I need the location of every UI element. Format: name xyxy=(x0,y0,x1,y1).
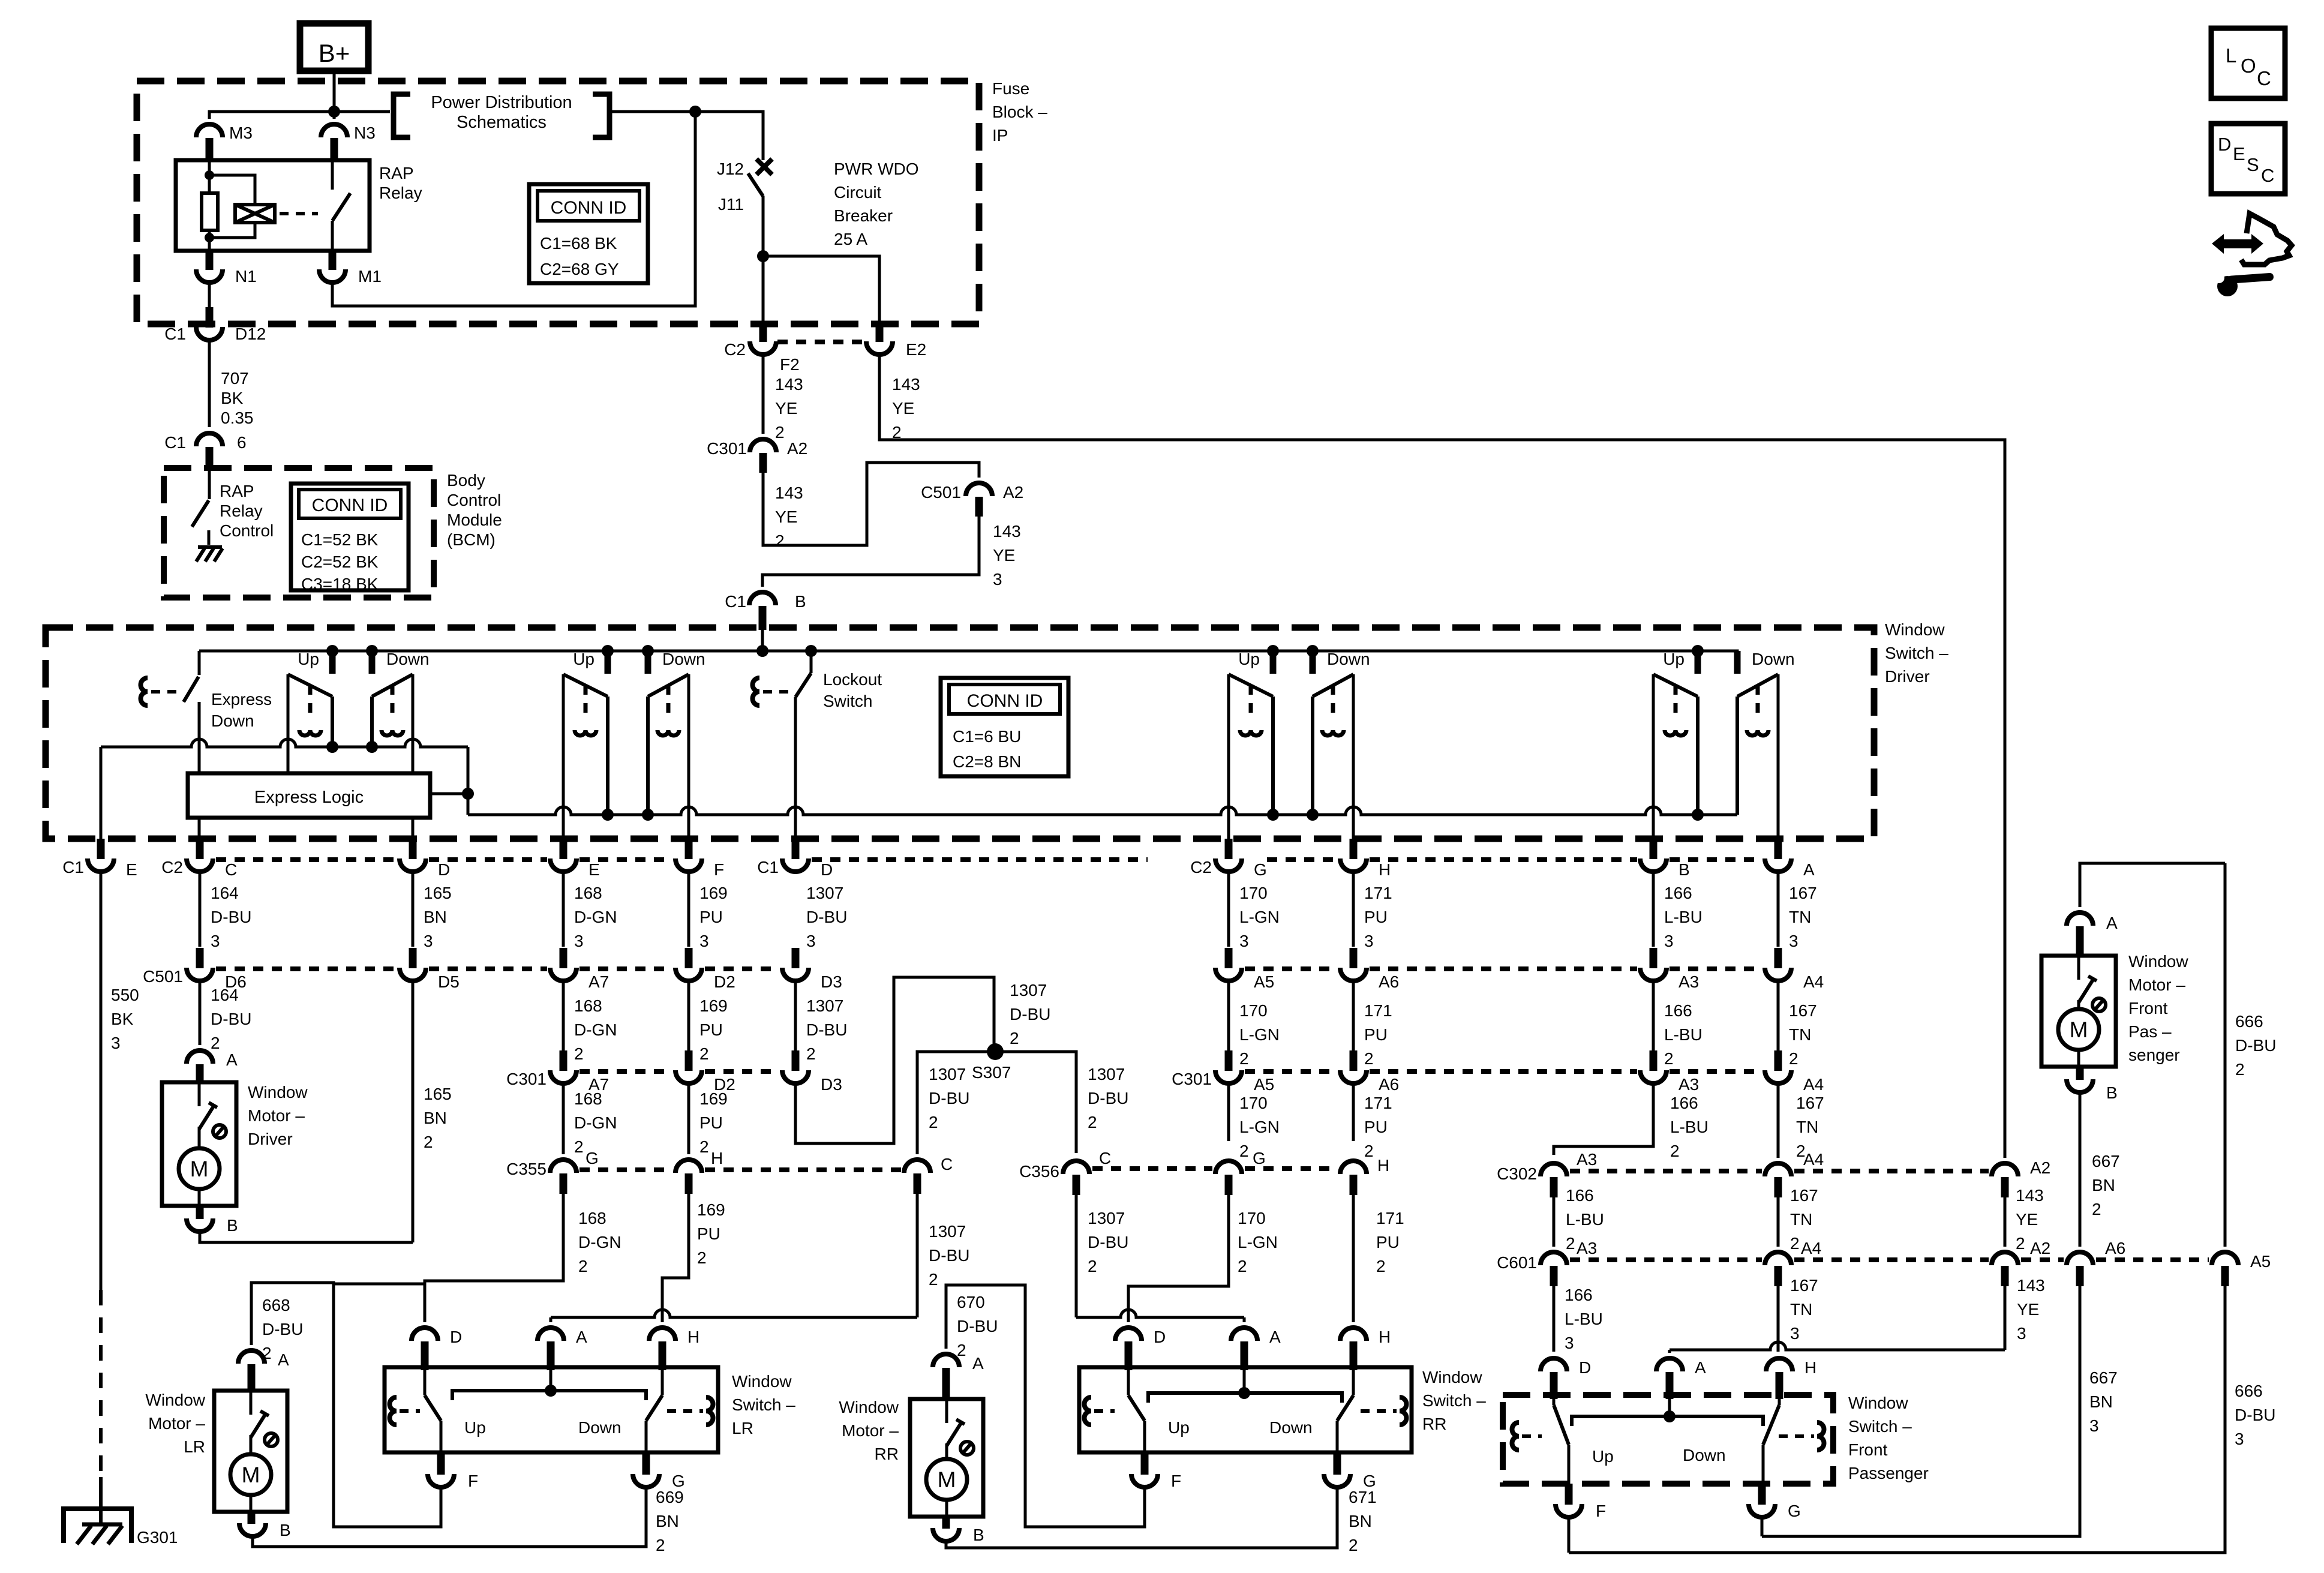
svg-text:Switch –: Switch – xyxy=(732,1395,795,1414)
svg-text:Pas –: Pas – xyxy=(2128,1022,2172,1041)
svg-text:3: 3 xyxy=(574,932,584,950)
svg-text:RR: RR xyxy=(1422,1415,1446,1433)
svg-text:YE: YE xyxy=(892,399,914,418)
svg-text:Down: Down xyxy=(386,650,430,668)
svg-text:PU: PU xyxy=(699,908,723,926)
svg-text:A5: A5 xyxy=(1254,972,1274,991)
svg-text:Down: Down xyxy=(211,712,254,730)
svg-text:C1=6 BU: C1=6 BU xyxy=(953,727,1021,746)
svg-text:168: 168 xyxy=(578,1209,606,1227)
svg-text:2: 2 xyxy=(1088,1113,1097,1131)
svg-text:D-BU: D-BU xyxy=(2235,1406,2275,1424)
connector A window switch front passenger xyxy=(1656,1358,1683,1371)
linkage LR up xyxy=(390,1397,397,1425)
svg-text:YE: YE xyxy=(2017,1300,2039,1319)
conn-id table BCM xyxy=(291,484,409,590)
svg-text:D-GN: D-GN xyxy=(574,908,617,926)
svg-text:BN: BN xyxy=(2089,1392,2113,1411)
svg-text:M3: M3 xyxy=(229,124,253,142)
svg-text:3: 3 xyxy=(1239,932,1249,950)
svg-text:B+: B+ xyxy=(319,39,350,67)
connector pin A4 C501-row x2964 xyxy=(1774,948,1782,968)
svg-text:G: G xyxy=(1254,860,1267,879)
connector row C2 fuse block xyxy=(777,340,865,344)
wire 143 YE 3 C601-FP A xyxy=(2004,1286,2007,1350)
connector row line C302 xyxy=(1570,1169,1762,1173)
wire 707 BK 0.35 xyxy=(208,338,211,427)
svg-text:D: D xyxy=(1154,1328,1166,1346)
svg-text:BN: BN xyxy=(1349,1512,1372,1530)
connector pin A driver switch x2964 xyxy=(1774,839,1782,859)
svg-text:A2: A2 xyxy=(787,439,807,458)
wire segment x2964 rowB-rowC xyxy=(1777,980,1780,1050)
svg-text:2: 2 xyxy=(699,1137,709,1156)
svg-text:B: B xyxy=(2106,1083,2118,1102)
svg-text:A4: A4 xyxy=(1803,1075,1824,1094)
wire segment x2256 rowB-rowC xyxy=(1352,980,1355,1050)
ground G301 xyxy=(64,1509,131,1543)
connector C601 pin A5 xyxy=(2212,1252,2238,1265)
wire segment x2756 rowB-rowC xyxy=(1652,980,1655,1050)
junction coil top xyxy=(205,170,214,180)
wire 671 BN 2 RR motor B to G xyxy=(946,1485,1337,1548)
svg-text:PU: PU xyxy=(697,1224,720,1243)
svg-text:A7: A7 xyxy=(588,972,609,991)
svg-text:170: 170 xyxy=(1238,1209,1266,1227)
svg-text:H: H xyxy=(1377,1156,1389,1175)
svg-text:2: 2 xyxy=(1790,1234,1800,1253)
svg-text:D: D xyxy=(438,860,450,879)
svg-text:L-GN: L-GN xyxy=(1239,908,1280,926)
svg-text:A: A xyxy=(226,1050,238,1069)
wire segment x1148 rowB-rowC xyxy=(687,980,690,1050)
junction pair1 down wiper xyxy=(366,741,378,753)
linkage LR down xyxy=(706,1397,713,1425)
svg-text:TN: TN xyxy=(1789,1025,1811,1044)
svg-text:C1: C1 xyxy=(725,592,746,611)
junction pair3 up wiper xyxy=(1267,809,1279,821)
svg-text:0.35: 0.35 xyxy=(221,409,254,427)
node Up contact stub pair3 xyxy=(1267,645,1279,657)
svg-text:Window: Window xyxy=(2128,952,2188,971)
wire driver wiper common (E net) xyxy=(101,739,468,747)
svg-text:3: 3 xyxy=(1364,932,1374,950)
svg-text:Control: Control xyxy=(220,521,274,540)
wire B+ feed down xyxy=(333,71,336,112)
svg-text:BN: BN xyxy=(424,1109,447,1127)
connector C356 pin C xyxy=(1063,1161,1089,1174)
connector C601 pin A6 xyxy=(2067,1252,2093,1265)
connector C2 pin G driver switch x2048 xyxy=(1225,839,1233,859)
connector F window switch RR xyxy=(1141,1452,1149,1475)
svg-text:A: A xyxy=(278,1350,289,1369)
logic block Express Logic xyxy=(188,773,430,818)
svg-text:CONN ID: CONN ID xyxy=(551,198,627,218)
connector C355 pin G xyxy=(550,1160,577,1173)
svg-text:1307: 1307 xyxy=(806,884,843,902)
svg-text:Up: Up xyxy=(1238,650,1260,668)
wire 666 D-BU 3 C601-FP F xyxy=(1569,1286,2225,1553)
linkage RR up xyxy=(1085,1397,1092,1425)
wire 169 PU 2 to LR H xyxy=(662,1194,689,1322)
connector C1 pin E driver switch x168 xyxy=(97,839,105,859)
svg-text:PU: PU xyxy=(1376,1233,1400,1251)
connector row line C356 xyxy=(1092,1166,1212,1171)
svg-text:Window: Window xyxy=(839,1398,899,1416)
svg-text:1307: 1307 xyxy=(929,1065,966,1083)
svg-text:M: M xyxy=(190,1157,209,1181)
svg-text:C2=8 BN: C2=8 BN xyxy=(953,752,1021,771)
wire 143 YE 2 (C301 to C501) xyxy=(763,463,979,545)
connector C356 pin H xyxy=(1340,1161,1367,1174)
power symbol B+ box xyxy=(300,23,368,71)
svg-text:2: 2 xyxy=(775,532,785,550)
svg-text:D-GN: D-GN xyxy=(574,1113,617,1132)
svg-text:Power Distribution: Power Distribution xyxy=(431,93,572,112)
connector row line C355 xyxy=(580,1167,672,1172)
svg-text:A: A xyxy=(576,1328,587,1346)
icon LOC box xyxy=(2211,28,2285,98)
svg-text:C355: C355 xyxy=(506,1160,547,1178)
svg-text:B: B xyxy=(280,1521,291,1539)
wire 1307 D-BU 2 to LR A xyxy=(916,1194,919,1317)
svg-text:TN: TN xyxy=(1789,908,1811,926)
svg-text:D: D xyxy=(2218,134,2231,155)
node Up contact stub pair2 xyxy=(602,645,614,657)
svg-text:A: A xyxy=(1803,860,1815,879)
svg-text:166: 166 xyxy=(1664,1001,1692,1020)
svg-text:Control: Control xyxy=(447,491,501,509)
svg-text:PU: PU xyxy=(699,1113,723,1132)
svg-text:D12: D12 xyxy=(235,325,266,343)
wire 666 D-BU 2 loop right xyxy=(2224,863,2227,1247)
svg-text:Body: Body xyxy=(447,471,485,490)
svg-text:RR: RR xyxy=(875,1445,899,1463)
svg-text:YE: YE xyxy=(993,546,1015,565)
svg-text:Lockout: Lockout xyxy=(823,670,882,689)
wire 165 BN 2 down xyxy=(412,980,415,1242)
svg-text:2: 2 xyxy=(1376,1257,1386,1275)
svg-text:Up: Up xyxy=(1663,650,1685,668)
wire breaker to E2 xyxy=(763,256,879,324)
svg-text:165: 165 xyxy=(424,1085,452,1103)
svg-text:165: 165 xyxy=(424,884,452,902)
svg-text:M1: M1 xyxy=(358,267,382,286)
svg-text:D5: D5 xyxy=(438,972,460,991)
wire segment x688 rowA-rowB xyxy=(412,871,415,947)
svg-text:Down: Down xyxy=(1752,650,1795,668)
svg-text:Switch –: Switch – xyxy=(1422,1391,1486,1410)
junction B+ node xyxy=(328,106,340,118)
wire 143 YE 3 (C501 to C1 B) xyxy=(762,517,979,587)
svg-text:N1: N1 xyxy=(235,267,257,286)
svg-text:B: B xyxy=(973,1526,984,1544)
svg-text:Motor –: Motor – xyxy=(148,1414,205,1433)
connector row line C2 (driver switch left) xyxy=(216,857,397,862)
svg-text:168: 168 xyxy=(574,884,602,902)
wire segment A6 rowC-C356 xyxy=(1352,1083,1355,1141)
connector pin E driver switch x939 xyxy=(560,839,568,859)
svg-text:C1=68 BK: C1=68 BK xyxy=(540,234,617,253)
svg-text:H: H xyxy=(687,1328,699,1346)
svg-text:2: 2 xyxy=(1238,1257,1247,1275)
svg-text:C: C xyxy=(2257,67,2271,89)
wire 168 D-GN 2 to LR D xyxy=(425,1194,563,1322)
switch LR up contact xyxy=(424,1370,427,1395)
junction bus lockout xyxy=(805,645,817,657)
svg-text:A6: A6 xyxy=(1379,1075,1399,1094)
window switch driver dashed box xyxy=(46,628,1874,839)
svg-text:143: 143 xyxy=(993,522,1021,541)
svg-text:C301: C301 xyxy=(1172,1070,1212,1088)
svg-text:171: 171 xyxy=(1364,1094,1392,1112)
wire LR D net link xyxy=(334,1283,425,1286)
switch RAP relay contacts xyxy=(331,161,334,190)
wire 167 TN 2 C302-C601 xyxy=(1777,1197,1780,1247)
wire segment x1326 rowB-rowC xyxy=(794,980,797,1050)
svg-text:A3: A3 xyxy=(1679,1075,1699,1094)
svg-text:Motor –: Motor – xyxy=(2128,975,2185,994)
svg-text:3: 3 xyxy=(2089,1416,2099,1435)
wire FP G down xyxy=(1761,1515,1764,1536)
icon animal head outline xyxy=(2241,214,2292,265)
wire 668 D-BU 2 LR F to motor A xyxy=(251,1283,441,1527)
connector row line C501 xyxy=(216,966,397,971)
svg-text:669: 669 xyxy=(656,1488,684,1506)
connector N3 xyxy=(333,112,336,119)
wire segment x939 rowC-rowD xyxy=(562,1083,565,1154)
connector pin D driver switch x688 xyxy=(409,839,417,859)
linkage Express Down xyxy=(141,678,148,706)
svg-text:2: 2 xyxy=(578,1257,588,1275)
switch LR down contact xyxy=(661,1370,664,1395)
svg-text:A6: A6 xyxy=(1379,972,1399,991)
svg-text:G: G xyxy=(1788,1502,1801,1520)
connector pin D5 C501-row x688 xyxy=(409,948,417,968)
svg-text:2: 2 xyxy=(1239,1142,1249,1160)
svg-text:C501: C501 xyxy=(921,483,961,502)
svg-text:6: 6 xyxy=(237,433,247,452)
svg-text:2: 2 xyxy=(1566,1234,1575,1253)
svg-text:2: 2 xyxy=(697,1248,707,1267)
wire 1307 D-BU 2 to RR A xyxy=(1075,1195,1078,1317)
svg-text:2: 2 xyxy=(1239,1049,1249,1068)
connector C302 pin A2 xyxy=(1992,1163,2018,1176)
svg-text:C2: C2 xyxy=(724,340,746,359)
wire 143 YE 2 (F2) xyxy=(762,352,765,434)
svg-text:A2: A2 xyxy=(2030,1158,2050,1177)
svg-text:3: 3 xyxy=(1790,1324,1800,1343)
bar LR switch common xyxy=(452,1391,646,1400)
wire 170 L-GN 2 to RR D xyxy=(1128,1195,1229,1322)
connector M3 xyxy=(196,124,223,137)
svg-text:167: 167 xyxy=(1789,1001,1817,1020)
svg-text:164: 164 xyxy=(211,884,239,902)
svg-text:2: 2 xyxy=(1664,1049,1674,1068)
svg-text:J11: J11 xyxy=(718,195,744,214)
svg-text:LR: LR xyxy=(184,1437,205,1456)
svg-text:169: 169 xyxy=(699,996,728,1015)
svg-text:169: 169 xyxy=(697,1200,725,1219)
connector B window motor RR xyxy=(942,1517,950,1529)
wire 166 L-BU 3 C601-FP D xyxy=(1553,1286,1556,1352)
svg-text:Up: Up xyxy=(573,650,594,668)
wire N1 down xyxy=(208,280,211,307)
relay RAP box xyxy=(176,160,370,251)
svg-text:Window: Window xyxy=(145,1391,205,1409)
wire C1 B to bus xyxy=(761,630,764,651)
svg-text:L-BU: L-BU xyxy=(1664,1025,1703,1044)
svg-text:N3: N3 xyxy=(354,124,376,142)
svg-text:(BCM): (BCM) xyxy=(447,530,496,549)
svg-text:H: H xyxy=(711,1149,723,1167)
connector C356 pin G xyxy=(1215,1161,1242,1174)
connector M1 xyxy=(329,251,337,270)
svg-text:143: 143 xyxy=(892,375,920,394)
svg-text:Down: Down xyxy=(1683,1446,1726,1464)
switch FP up contact xyxy=(1553,1399,1556,1405)
svg-text:2: 2 xyxy=(929,1113,938,1131)
wire segment x2048 rowB-rowC xyxy=(1227,980,1230,1050)
svg-text:166: 166 xyxy=(1565,1286,1593,1304)
svg-text:166: 166 xyxy=(1670,1094,1698,1112)
svg-text:TN: TN xyxy=(1790,1210,1812,1229)
svg-text:M: M xyxy=(242,1463,260,1487)
connector A window switch RR xyxy=(1231,1328,1257,1341)
svg-text:PU: PU xyxy=(699,1020,723,1039)
connector row line C301 xyxy=(580,1069,672,1074)
connector C301 pin A5 C301-row x2048 xyxy=(1225,1050,1233,1071)
connector B window motor front passenger xyxy=(2076,1067,2084,1080)
connector E2 xyxy=(876,324,884,342)
connector C301 pin A7 C301-row x939 xyxy=(560,1050,568,1071)
wire 143 YE 2 C302-C601 xyxy=(2004,1197,2007,1247)
svg-text:D-BU: D-BU xyxy=(957,1317,998,1335)
svg-text:Breaker: Breaker xyxy=(834,206,893,225)
connector D window switch front passenger xyxy=(1541,1358,1567,1371)
svg-text:143: 143 xyxy=(2016,1186,2044,1205)
svg-text:168: 168 xyxy=(574,996,602,1015)
svg-text:C301: C301 xyxy=(506,1070,547,1088)
svg-text:C1: C1 xyxy=(757,858,779,876)
connector C1 D12 xyxy=(206,307,214,328)
switch paddle FP-down (pair4) xyxy=(1737,674,1778,697)
linkage dash coil to contacts xyxy=(280,212,318,215)
svg-text:2: 2 xyxy=(424,1133,433,1151)
svg-text:O: O xyxy=(2241,55,2256,77)
connector H window switch front passenger xyxy=(1766,1358,1792,1371)
motor window motor driver xyxy=(162,1082,236,1206)
node Up contact stub pair4 xyxy=(1692,645,1704,657)
svg-text:Circuit: Circuit xyxy=(834,183,882,202)
svg-text:C3=18 BK: C3=18 BK xyxy=(301,575,379,593)
svg-text:1307: 1307 xyxy=(1088,1209,1125,1227)
connector H window switch RR xyxy=(1340,1328,1367,1341)
svg-text:Express: Express xyxy=(211,690,272,709)
svg-text:L-GN: L-GN xyxy=(1239,1118,1280,1136)
svg-text:3: 3 xyxy=(993,570,1002,589)
connector C2 pin C driver switch x333 xyxy=(196,839,204,859)
connector C2 F2 xyxy=(759,324,767,342)
svg-text:A: A xyxy=(972,1354,984,1373)
wire 171 PU 2 to RR H xyxy=(1352,1195,1355,1322)
svg-text:L-BU: L-BU xyxy=(1565,1310,1603,1328)
svg-text:S: S xyxy=(2247,154,2259,175)
svg-text:2: 2 xyxy=(1088,1257,1097,1275)
junction pair1 up wiper xyxy=(326,741,338,753)
svg-text:YE: YE xyxy=(2016,1210,2038,1229)
body control module dashed box xyxy=(164,468,434,598)
icon wrench xyxy=(2217,276,2238,296)
svg-text:G: G xyxy=(585,1149,599,1167)
wire segment x1148 rowA-rowB xyxy=(687,871,690,947)
connector G window switch RR xyxy=(1334,1452,1341,1475)
node Down contact stub pair1 xyxy=(366,645,378,657)
svg-text:166: 166 xyxy=(1664,884,1692,902)
svg-text:1307: 1307 xyxy=(929,1222,966,1241)
connector D window switch RR xyxy=(1115,1328,1142,1341)
wire 550 BK 3 (C1 E down) xyxy=(100,871,103,1290)
bus wire (battery feed in driver switch) xyxy=(199,651,1737,674)
switch Express Down xyxy=(198,651,201,675)
svg-text:TN: TN xyxy=(1790,1300,1812,1319)
switch paddle driver-down xyxy=(372,674,413,697)
svg-text:3: 3 xyxy=(211,932,220,950)
svg-text:3: 3 xyxy=(1565,1334,1574,1352)
svg-text:Window: Window xyxy=(1885,620,1945,639)
linkage Lockout xyxy=(753,678,760,706)
off-page bracket left (Power Distribution) xyxy=(394,94,410,137)
splice S307 xyxy=(987,1043,1004,1060)
svg-text:Switch: Switch xyxy=(823,692,872,710)
svg-text:670: 670 xyxy=(957,1293,985,1311)
svg-text:1307: 1307 xyxy=(1088,1065,1125,1083)
connector A window motor front passenger xyxy=(2067,912,2093,926)
svg-text:A3: A3 xyxy=(1577,1150,1597,1169)
window switch RR box xyxy=(1079,1367,1412,1452)
svg-text:2: 2 xyxy=(1364,1142,1374,1160)
svg-text:D-BU: D-BU xyxy=(1010,1005,1050,1023)
svg-text:C2: C2 xyxy=(161,858,183,876)
svg-text:Front: Front xyxy=(2128,999,2168,1017)
svg-text:A2: A2 xyxy=(2030,1239,2050,1257)
svg-text:F2: F2 xyxy=(780,355,800,374)
connector D window switch LR xyxy=(412,1328,438,1341)
svg-text:C: C xyxy=(941,1155,953,1173)
svg-text:D-BU: D-BU xyxy=(2235,1036,2276,1055)
svg-text:667: 667 xyxy=(2089,1368,2118,1387)
connector C601 pin A4 xyxy=(1765,1252,1791,1265)
svg-text:D: D xyxy=(821,860,833,879)
wire bracket to breaker feed xyxy=(609,112,763,160)
svg-text:RAP: RAP xyxy=(379,164,414,182)
connector pin D2 C501-row x1148 xyxy=(685,948,693,968)
svg-text:3: 3 xyxy=(1789,932,1798,950)
linkage FP up xyxy=(1512,1422,1520,1450)
resistor RAP relay xyxy=(208,175,211,193)
connector A window switch LR xyxy=(538,1328,564,1341)
wire segment x939 rowB-rowC xyxy=(562,980,565,1050)
svg-text:169: 169 xyxy=(699,884,728,902)
connector pin D2 C301-row x1148 xyxy=(685,1050,693,1071)
svg-text:RAP: RAP xyxy=(220,482,254,500)
wire 166 L-BU 2 jog to C302 xyxy=(1554,1083,1653,1155)
junction M1 feed tap xyxy=(689,106,701,118)
svg-text:667: 667 xyxy=(2092,1152,2120,1170)
svg-text:2: 2 xyxy=(1349,1536,1358,1554)
svg-text:Up: Up xyxy=(1168,1418,1190,1437)
wire 669 BN 2 LR motor B to G xyxy=(253,1485,646,1547)
